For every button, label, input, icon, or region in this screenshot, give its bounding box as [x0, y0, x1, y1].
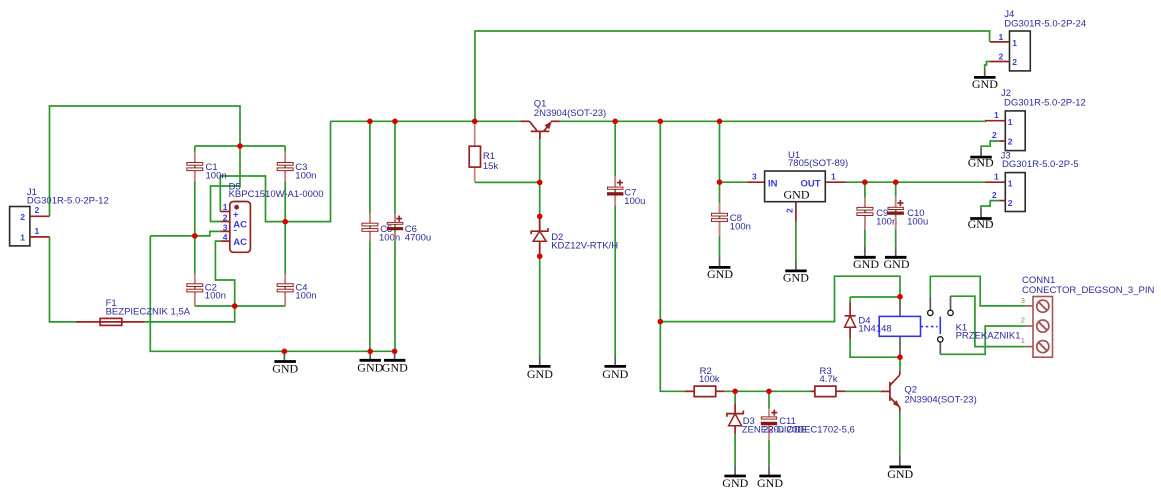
ground (C11)	[757, 466, 783, 490]
wire right contact to CONN1 pin1	[951, 296, 1026, 346]
svg-text:3: 3	[752, 171, 757, 181]
ground (Q2)	[887, 456, 913, 481]
svg-text:1: 1	[223, 202, 228, 212]
wire main 12V bus left of Q1	[331, 120, 521, 122]
wire left contact to CONN1 pin3	[930, 276, 1025, 306]
wire C6 column	[394, 121, 396, 351]
capacitor C3	[277, 152, 316, 182]
svg-text:2: 2	[1021, 316, 1025, 325]
junction D2 bottom	[537, 253, 543, 259]
junction R2 D3	[732, 389, 738, 395]
svg-text:GND: GND	[272, 361, 298, 375]
svg-text:IN: IN	[768, 178, 778, 189]
svg-text:100n: 100n	[730, 222, 751, 233]
wire J1.2 to C1/C3 top row	[50, 106, 241, 216]
capacitor C2	[187, 274, 226, 306]
wire Q2 emitter to ground	[899, 411, 901, 456]
svg-text:2: 2	[1008, 198, 1013, 208]
svg-text:CONECTOR_DEGSON_3_PIN: CONECTOR_DEGSON_3_PIN	[1022, 285, 1154, 296]
svg-text:GND: GND	[722, 476, 748, 490]
ground (J3)	[968, 209, 994, 231]
svg-text:2: 2	[785, 208, 795, 213]
junction bus R1	[472, 119, 478, 125]
wire D4 top link	[850, 296, 900, 298]
svg-text:100n: 100n	[295, 291, 316, 302]
svg-text:2: 2	[992, 190, 997, 200]
junction OUT C9	[862, 179, 868, 185]
capacitor C10 (polarized)	[888, 196, 929, 229]
wire D5 plus output to bus riser	[220, 121, 330, 221]
transistor Q2	[881, 371, 977, 412]
zener diode D2	[531, 219, 618, 255]
wire D3 column	[734, 391, 736, 403]
wire relay supply loop	[660, 276, 900, 321]
ground (C6)	[382, 351, 408, 374]
resistor R1	[469, 121, 498, 182]
wire C1-C3 top row	[195, 145, 285, 147]
svg-text:1: 1	[35, 226, 40, 236]
junction relay coil bottom	[897, 354, 903, 360]
wire D4 column top	[849, 297, 851, 303]
ground (minus rail left)	[272, 351, 298, 375]
capacitor C11 (polarized)	[761, 409, 855, 440]
connector J3	[985, 150, 1079, 211]
wire Q1 base / D2 column	[539, 138, 541, 356]
svg-text:GND: GND	[884, 257, 910, 271]
svg-text:1: 1	[1008, 117, 1013, 127]
svg-text:BEZPIECZNIK 1,5A: BEZPIECZNIK 1,5A	[106, 306, 191, 317]
svg-text:AC: AC	[233, 237, 247, 248]
svg-text:GND: GND	[783, 271, 809, 285]
svg-text:KBPC1510W-A1-0000: KBPC1510W-A1-0000	[229, 189, 324, 200]
ground (J2)	[968, 149, 994, 170]
svg-text:1: 1	[1012, 38, 1017, 48]
svg-text:3: 3	[223, 222, 228, 232]
capacitor C4	[277, 274, 316, 306]
svg-text:100n: 100n	[379, 232, 400, 243]
svg-text:2: 2	[1012, 57, 1017, 67]
resistor R3	[810, 366, 845, 397]
capacitor C6 (polarized)	[387, 213, 431, 243]
connector CONN1	[1021, 275, 1155, 357]
capacitor C8	[712, 203, 751, 236]
svg-text:DG301R-5.0-2P-5: DG301R-5.0-2P-5	[1002, 159, 1079, 170]
wire R1 bottom to Q1 base column	[475, 181, 540, 183]
svg-text:1: 1	[1008, 179, 1013, 189]
ground (C5)	[357, 351, 383, 374]
junction bus C6	[392, 119, 398, 125]
svg-text:GND: GND	[382, 360, 408, 374]
svg-text:220u 20DEC1702-5,6: 220u 20DEC1702-5,6	[763, 425, 855, 436]
svg-text:3: 3	[1021, 296, 1025, 305]
capacitor C5	[362, 213, 400, 243]
junction bus C7	[612, 119, 618, 125]
svg-text:100k: 100k	[699, 374, 720, 385]
svg-text:100n: 100n	[205, 291, 226, 302]
bridge rectifier D5	[220, 181, 323, 252]
connector J2	[985, 88, 1086, 151]
relay K1	[879, 296, 1020, 357]
wire C5 column	[369, 121, 371, 351]
diode D4	[845, 303, 892, 339]
wire main bus right of Q1 to J2 pin1	[560, 120, 986, 123]
svg-text:GND: GND	[784, 187, 810, 201]
ground (J4)	[972, 69, 998, 92]
wire J3 pin2 to GND jog	[981, 201, 999, 209]
svg-text:1: 1	[831, 171, 836, 181]
svg-text:1: 1	[1021, 336, 1025, 345]
regulator U1	[747, 150, 848, 222]
wire C11 lower lead to ground	[768, 440, 770, 467]
wire D4 bottom to relay bottom node	[850, 339, 900, 358]
svg-text:100n: 100n	[876, 216, 897, 227]
svg-text:4.7k: 4.7k	[820, 374, 838, 385]
svg-text:KDZ12V-RTK/H: KDZ12V-RTK/H	[551, 240, 618, 251]
svg-text:GND: GND	[968, 217, 994, 231]
wire U1 IN	[720, 181, 748, 183]
wire D3 lower lead to ground	[734, 434, 736, 467]
wire C11 column	[768, 391, 770, 408]
capacitor C7 (polarized)	[607, 176, 645, 207]
ground (D2)	[527, 356, 553, 381]
wire AC-A row to D5 pin2	[211, 146, 241, 222]
ground (C7)	[602, 356, 628, 381]
transistor Q1	[520, 98, 606, 139]
wire C3/C4 column	[284, 146, 286, 306]
wire C7 column	[614, 121, 616, 356]
wire R3 to Q2 base	[845, 390, 881, 392]
svg-text:2N3904(SOT-23): 2N3904(SOT-23)	[534, 108, 606, 119]
junction Q1 base R1	[537, 180, 543, 186]
wire U1 OUT rail to J3 pin1	[846, 181, 985, 183]
junction ground rail C5	[367, 349, 373, 355]
svg-text:GND: GND	[968, 155, 994, 169]
wire C9 column	[864, 182, 866, 247]
junction R2 C11	[766, 389, 772, 395]
junction (285,221.7)	[282, 219, 288, 225]
svg-text:GND: GND	[887, 467, 913, 481]
ground (C10)	[884, 247, 910, 271]
junction ground rail left	[282, 349, 288, 355]
svg-text:2: 2	[1008, 137, 1013, 147]
svg-text:GND: GND	[357, 360, 383, 374]
svg-text:GND: GND	[527, 367, 553, 381]
junction (194.8,235.9)	[192, 233, 198, 239]
wire bus drop to U1 IN node	[719, 121, 721, 182]
svg-text:GND: GND	[853, 257, 879, 271]
wire C10 column	[895, 182, 897, 247]
svg-text:15k: 15k	[483, 161, 499, 172]
capacitor C9	[857, 197, 897, 230]
wire R2 to R3 row	[725, 390, 811, 392]
svg-text:DG301R-5.0-2P-24: DG301R-5.0-2P-24	[1004, 19, 1086, 30]
svg-text:2: 2	[20, 212, 25, 222]
svg-text:4: 4	[223, 232, 228, 242]
junction bus x719	[717, 119, 723, 125]
wire J1.1 to fuse	[50, 237, 77, 322]
wire minus net down to ground rail	[150, 236, 394, 351]
svg-text:GND: GND	[602, 367, 628, 381]
zener diode D3	[727, 404, 807, 436]
junction bus x660	[658, 119, 664, 125]
wire relay bottom to Q2 collector	[899, 357, 901, 371]
svg-text:7805(SOT-89): 7805(SOT-89)	[788, 158, 848, 169]
svg-text:PRZEKAZNIK1: PRZEKAZNIK1	[956, 330, 1021, 341]
svg-text:-: -	[234, 225, 237, 236]
wire U1 pin2 down	[795, 221, 797, 260]
junction bus C5	[367, 119, 373, 125]
svg-text:1: 1	[994, 172, 999, 182]
junction ground rail C6	[392, 349, 398, 355]
junction (234.7,306)	[232, 303, 238, 309]
svg-text:DG301R-5.0-2P-12: DG301R-5.0-2P-12	[1004, 97, 1086, 108]
svg-text:2: 2	[35, 205, 40, 215]
svg-text:GND: GND	[757, 476, 783, 490]
ground (C8)	[707, 257, 733, 282]
wire minus row to D5 pin3	[150, 231, 220, 236]
svg-text:2: 2	[999, 51, 1004, 61]
connector J4	[990, 9, 1086, 71]
svg-text:4700u: 4700u	[405, 232, 431, 243]
ground (D3)	[722, 466, 748, 490]
wire fuse to D5 pin4	[145, 241, 235, 322]
svg-text:100n: 100n	[295, 170, 316, 181]
ground (C9)	[853, 247, 879, 271]
ground (U1)	[783, 261, 809, 285]
svg-text:100u: 100u	[624, 196, 645, 207]
resistor R2	[685, 366, 725, 397]
wire J4 pin2 to GND jog	[985, 62, 990, 69]
svg-text:100u: 100u	[907, 216, 928, 227]
svg-text:2: 2	[992, 130, 997, 140]
junction OUT C10	[893, 179, 899, 185]
capacitor C1	[187, 152, 227, 182]
svg-text:1: 1	[994, 110, 999, 120]
svg-text:2N3904(SOT-23): 2N3904(SOT-23)	[904, 395, 976, 406]
wire J2 pin2 to GND jog	[981, 141, 999, 149]
junction (240,146)	[237, 143, 243, 149]
connector J1	[10, 187, 109, 246]
svg-text:GND: GND	[707, 267, 733, 281]
junction D2 top	[537, 214, 543, 220]
svg-text:1: 1	[999, 32, 1004, 42]
svg-text:1N4148: 1N4148	[858, 324, 891, 335]
svg-text:2: 2	[223, 212, 228, 222]
wire C1/C2 column	[194, 146, 196, 306]
wire bottom contact to CONN1 pin2	[940, 326, 1025, 354]
wire top loop to J4 pin1	[475, 31, 990, 121]
junction C8 node	[717, 179, 723, 185]
junction relay branch	[658, 319, 664, 325]
junction relay coil top	[897, 294, 903, 300]
fuse F1	[76, 298, 191, 325]
svg-text:100n: 100n	[206, 170, 227, 181]
wire C2-C4 bottom row	[195, 305, 285, 307]
wire bus drop x660 to R2	[660, 121, 688, 391]
wire C8 column	[719, 182, 721, 256]
svg-text:GND: GND	[972, 77, 998, 91]
svg-text:1: 1	[20, 233, 25, 243]
